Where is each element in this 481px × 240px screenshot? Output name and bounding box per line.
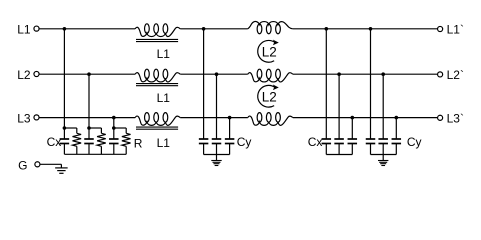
svg-text:L1: L1	[157, 47, 171, 61]
svg-text:Cx: Cx	[308, 135, 323, 149]
svg-text:L3`: L3`	[447, 112, 464, 126]
svg-text:L2: L2	[17, 68, 31, 82]
svg-text:Cx: Cx	[47, 135, 62, 149]
svg-text:L2`: L2`	[447, 68, 464, 82]
svg-text:L3: L3	[17, 111, 31, 125]
svg-text:L1: L1	[157, 91, 171, 105]
svg-text:R: R	[134, 137, 143, 151]
svg-text:L1`: L1`	[447, 23, 464, 37]
svg-text:G: G	[18, 159, 27, 173]
svg-text:L1: L1	[17, 23, 31, 37]
svg-text:Cy: Cy	[237, 135, 252, 149]
svg-text:L2: L2	[262, 44, 277, 59]
svg-text:Cy: Cy	[407, 135, 422, 149]
svg-text:L1: L1	[157, 136, 171, 150]
svg-text:L2: L2	[262, 90, 277, 105]
